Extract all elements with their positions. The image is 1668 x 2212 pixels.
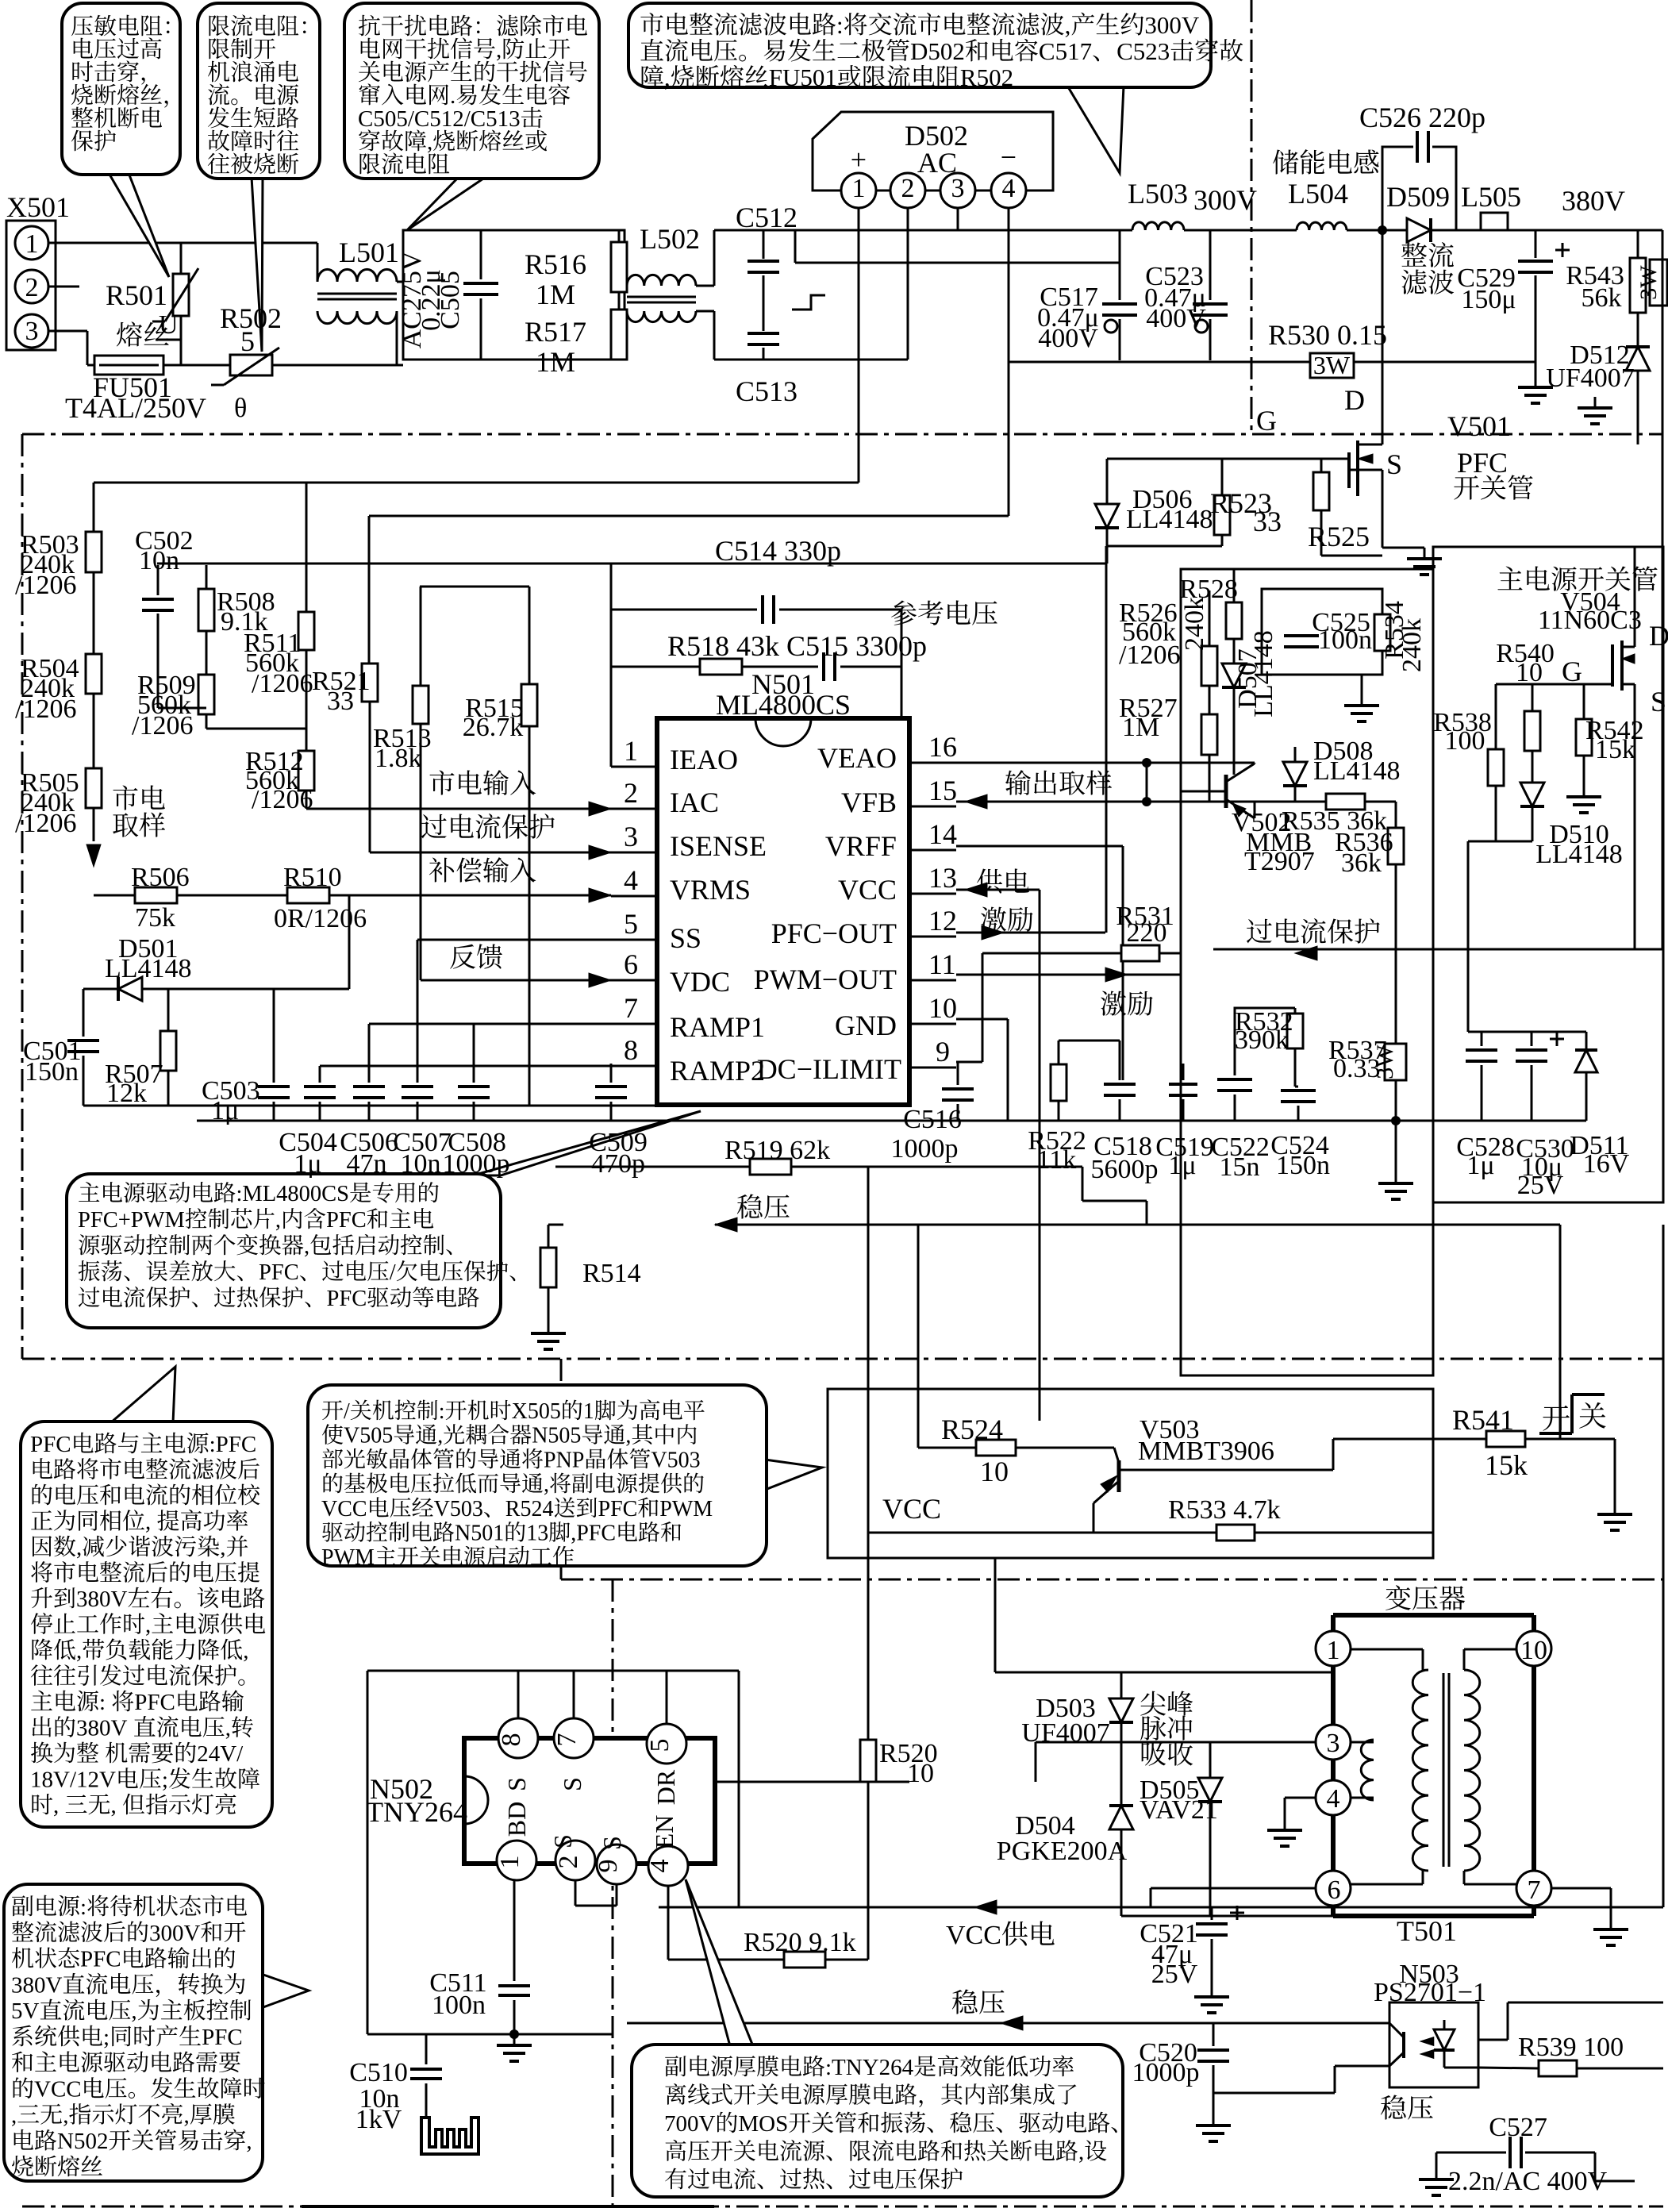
svg-text:9: 9 <box>594 1860 623 1873</box>
svg-text:ISENSE: ISENSE <box>670 830 767 862</box>
svg-text:PFC: PFC <box>259 1260 299 1285</box>
svg-text:R539 100: R539 100 <box>1518 2033 1624 2062</box>
svg-text:RAMP2: RAMP2 <box>670 1055 765 1087</box>
svg-text:1: 1 <box>495 1856 525 1869</box>
svg-text:,: , <box>496 37 502 63</box>
svg-text:1M: 1M <box>536 346 575 378</box>
svg-text:,: , <box>243 1638 248 1664</box>
svg-text:10: 10 <box>1520 1636 1547 1665</box>
svg-text:C516: C516 <box>903 1105 962 1134</box>
svg-text:1kV: 1kV <box>356 2105 402 2134</box>
svg-text:1000p: 1000p <box>1132 2058 1200 2087</box>
svg-text:15k: 15k <box>1485 1449 1528 1481</box>
svg-text::ML4800CS: :ML4800CS <box>236 1182 350 1206</box>
svg-text:390k: 390k <box>1235 1025 1289 1055</box>
svg-text:C517: C517 <box>1039 37 1092 65</box>
svg-text:C514 330p: C514 330p <box>715 535 841 567</box>
svg-text:5600p: 5600p <box>1091 1155 1159 1184</box>
svg-text:/1206: /1206 <box>1119 641 1180 670</box>
svg-text:U: U <box>159 310 179 340</box>
svg-text:1μ: 1μ <box>1168 1151 1196 1180</box>
svg-text:IEAO: IEAO <box>670 744 738 775</box>
svg-text:R502: R502 <box>960 63 1013 91</box>
svg-text:C523: C523 <box>1116 37 1170 65</box>
svg-text:MOS: MOS <box>738 2111 788 2137</box>
svg-text:150n: 150n <box>25 1057 79 1087</box>
svg-text:VFB: VFB <box>841 787 897 818</box>
svg-text:1M: 1M <box>536 279 575 310</box>
svg-text:13: 13 <box>526 1521 548 1546</box>
svg-text:,: , <box>53 1793 59 1818</box>
svg-text::: : <box>836 11 844 39</box>
svg-text:16V: 16V <box>1583 1149 1630 1179</box>
svg-text:1μ: 1μ <box>294 1149 321 1179</box>
svg-text:3W: 3W <box>1635 265 1662 300</box>
svg-text:PWM−OUT: PWM−OUT <box>754 964 897 995</box>
svg-text:.: . <box>450 83 455 109</box>
svg-text:R520 9.1k: R520 9.1k <box>744 1928 856 1957</box>
svg-text:150μ: 150μ <box>1461 285 1516 314</box>
svg-text:C512: C512 <box>736 202 797 233</box>
svg-text:G: G <box>1256 405 1277 437</box>
svg-text:9: 9 <box>936 1036 950 1068</box>
svg-text:/: / <box>344 1399 350 1424</box>
svg-text:400V: 400V <box>1038 324 1098 353</box>
svg-text:10: 10 <box>980 1456 1009 1487</box>
svg-text:VCC: VCC <box>946 1921 1001 1950</box>
svg-text:PS2701−1: PS2701−1 <box>1374 1978 1486 2007</box>
svg-text:R530 0.15: R530 0.15 <box>1268 319 1387 351</box>
svg-text:LL4148: LL4148 <box>1313 756 1401 786</box>
svg-text:33: 33 <box>1253 506 1282 537</box>
svg-text:2: 2 <box>901 174 915 203</box>
svg-text:2: 2 <box>554 1856 583 1869</box>
svg-text:G: G <box>1562 656 1582 687</box>
svg-text:/1206: /1206 <box>15 571 76 600</box>
svg-text:,: , <box>1078 2140 1084 2165</box>
svg-text:FU501: FU501 <box>769 63 837 91</box>
svg-text:R524: R524 <box>505 1497 554 1521</box>
svg-text::TNY264: :TNY264 <box>825 2055 914 2080</box>
svg-text:18V/12V: 18V/12V <box>30 1768 116 1793</box>
svg-text:240k: 240k <box>1180 597 1209 651</box>
svg-text:,: , <box>246 2129 252 2154</box>
svg-text:PNP: PNP <box>544 1448 584 1472</box>
svg-text:SS: SS <box>670 922 701 954</box>
svg-text:VCC: VCC <box>34 2077 82 2102</box>
svg-text:300V: 300V <box>149 1921 201 1946</box>
svg-text:R533 4.7k: R533 4.7k <box>1168 1495 1281 1525</box>
svg-text:16: 16 <box>928 731 957 763</box>
svg-text:380V: 380V <box>76 1587 128 1612</box>
svg-text:UF4007: UF4007 <box>1546 364 1634 393</box>
svg-text:D: D <box>1344 384 1365 416</box>
svg-text:11k: 11k <box>1037 1145 1077 1175</box>
svg-text:6: 6 <box>624 948 638 980</box>
svg-text:T2907: T2907 <box>1244 847 1315 876</box>
svg-text:−: − <box>1001 141 1017 173</box>
svg-text:300V: 300V <box>1144 11 1200 39</box>
svg-text:2: 2 <box>624 777 638 809</box>
svg-text:,: , <box>225 1716 231 1741</box>
svg-text:36k: 36k <box>1341 848 1382 878</box>
svg-text:R519 62k: R519 62k <box>724 1136 830 1165</box>
svg-text:,: , <box>427 129 432 155</box>
svg-text:PFC: PFC <box>1457 447 1508 479</box>
svg-text:5: 5 <box>645 1739 675 1752</box>
svg-text:3: 3 <box>624 821 638 852</box>
svg-text:1: 1 <box>852 174 866 203</box>
svg-text:8: 8 <box>497 1733 526 1747</box>
svg-text:/1206: /1206 <box>252 669 313 698</box>
svg-text:4: 4 <box>1002 174 1016 203</box>
svg-text:R501: R501 <box>106 279 167 311</box>
svg-text:TNY264: TNY264 <box>366 1796 467 1828</box>
svg-text:R541: R541 <box>1452 1404 1514 1436</box>
svg-text:1: 1 <box>583 1399 594 1424</box>
svg-text:7: 7 <box>552 1733 582 1747</box>
svg-text:R525: R525 <box>1308 521 1370 552</box>
svg-text:/1206: /1206 <box>15 809 76 838</box>
svg-text:S: S <box>1651 686 1666 717</box>
svg-text:UF4007: UF4007 <box>1021 1718 1109 1748</box>
svg-text:,: , <box>111 1793 117 1818</box>
svg-text:VDC: VDC <box>670 966 730 998</box>
svg-text:100n: 100n <box>432 1991 486 2020</box>
svg-text:2: 2 <box>25 273 39 302</box>
svg-text:,: , <box>63 2102 68 2128</box>
svg-text:T501: T501 <box>1397 1915 1457 1947</box>
svg-text:25V: 25V <box>1151 1960 1198 1989</box>
svg-text:L505: L505 <box>1461 181 1521 213</box>
svg-text:C505: C505 <box>436 271 465 329</box>
svg-text:S: S <box>502 1777 531 1791</box>
svg-text:S: S <box>548 1834 577 1848</box>
svg-text:PWM: PWM <box>321 1545 375 1570</box>
svg-text:11N60C3: 11N60C3 <box>1538 606 1642 635</box>
svg-text:1: 1 <box>25 229 39 259</box>
svg-text:PFC: PFC <box>327 1287 367 1311</box>
svg-text:R516: R516 <box>525 248 586 280</box>
svg-text:,: , <box>437 1424 443 1448</box>
svg-text:VCC: VCC <box>321 1497 367 1521</box>
svg-text:,: , <box>220 1535 225 1560</box>
svg-text:DR: DR <box>651 1769 680 1805</box>
svg-text:LL4148: LL4148 <box>1249 630 1278 717</box>
svg-text:PFC+PWM: PFC+PWM <box>78 1208 185 1233</box>
svg-text:+: + <box>851 144 867 175</box>
svg-text:PWM: PWM <box>659 1497 713 1521</box>
svg-text:1M: 1M <box>1122 713 1159 742</box>
svg-text:4: 4 <box>624 864 638 896</box>
svg-text:4: 4 <box>645 1860 675 1873</box>
svg-text:;: ; <box>103 2025 110 2050</box>
svg-text:VAV21: VAV21 <box>1140 1795 1218 1825</box>
svg-text:4: 4 <box>1327 1784 1340 1814</box>
svg-text:12: 12 <box>928 905 957 937</box>
svg-text:10: 10 <box>907 1759 934 1788</box>
svg-text:C527: C527 <box>1489 2113 1547 2142</box>
svg-text:15n: 15n <box>1220 1152 1260 1182</box>
svg-text:GND: GND <box>835 1010 897 1041</box>
svg-text:8: 8 <box>624 1034 638 1066</box>
svg-text:T4AL/250V: T4AL/250V <box>65 392 206 424</box>
svg-text:,PFC: ,PFC <box>571 1521 616 1546</box>
svg-text:S: S <box>558 1777 586 1791</box>
svg-text:RAMP1: RAMP1 <box>670 1011 765 1043</box>
svg-text:33: 33 <box>327 687 354 716</box>
svg-text:10: 10 <box>928 992 957 1024</box>
svg-text:VCC: VCC <box>882 1493 941 1525</box>
svg-text:100n: 100n <box>1318 625 1372 655</box>
svg-text:R524: R524 <box>941 1414 1003 1445</box>
svg-text:380V: 380V <box>1562 185 1625 217</box>
svg-text:N501: N501 <box>455 1521 504 1546</box>
svg-text:,: , <box>11 2102 17 2128</box>
svg-text:5: 5 <box>240 325 255 357</box>
svg-text:C510: C510 <box>349 2058 408 2087</box>
svg-text:θ: θ <box>234 394 247 423</box>
svg-text:D: D <box>1649 620 1668 652</box>
svg-text:X501: X501 <box>6 191 70 223</box>
svg-text:N505: N505 <box>532 1424 581 1448</box>
svg-text:1μ: 1μ <box>1466 1151 1494 1180</box>
svg-text:V505: V505 <box>344 1424 393 1448</box>
svg-text:S: S <box>598 1836 626 1850</box>
svg-text::: : <box>80 1895 86 1920</box>
svg-text:L503: L503 <box>1128 178 1188 210</box>
svg-text:PFC: PFC <box>326 1208 367 1233</box>
svg-text:R510: R510 <box>283 863 342 892</box>
svg-text:10: 10 <box>1516 658 1543 687</box>
svg-text:L504: L504 <box>1288 178 1348 210</box>
svg-text:380V: 380V <box>11 1972 63 1998</box>
svg-text:,: , <box>76 1638 82 1664</box>
svg-text:,: , <box>544 1472 549 1497</box>
svg-text:LL4148: LL4148 <box>1126 505 1213 534</box>
svg-text:26.7k: 26.7k <box>463 713 524 742</box>
svg-text:D509: D509 <box>1386 181 1450 213</box>
svg-text:C513: C513 <box>736 375 797 407</box>
svg-text:VCC: VCC <box>838 874 897 906</box>
svg-text:7: 7 <box>624 992 638 1024</box>
svg-text:PFC: PFC <box>30 1432 71 1457</box>
svg-text:R514: R514 <box>582 1259 641 1288</box>
svg-text:BD: BD <box>502 1802 531 1837</box>
svg-text:,: , <box>625 1424 631 1448</box>
svg-text:700V: 700V <box>664 2111 716 2137</box>
svg-text:,: , <box>664 63 671 91</box>
svg-text:47n: 47n <box>347 1149 387 1179</box>
svg-text:C526 220p: C526 220p <box>1359 102 1485 133</box>
svg-text:,: , <box>275 1208 281 1233</box>
svg-text:IAC: IAC <box>670 787 719 818</box>
svg-text:2.2n/AC 400V: 2.2n/AC 400V <box>1448 2167 1608 2196</box>
svg-text:/1206: /1206 <box>132 711 193 741</box>
svg-text:240k: 240k <box>1397 618 1427 672</box>
svg-text::: : <box>439 1399 445 1424</box>
svg-text:VRFF: VRFF <box>825 830 897 862</box>
svg-text:PFC: PFC <box>598 1497 638 1521</box>
svg-text:5: 5 <box>624 908 638 940</box>
svg-text:ML4800CS: ML4800CS <box>716 689 851 721</box>
svg-text:3: 3 <box>25 317 39 346</box>
svg-text:24V/: 24V/ <box>197 1741 244 1767</box>
svg-text:PFC−OUT: PFC−OUT <box>771 917 897 949</box>
svg-text:N502: N502 <box>57 2129 108 2154</box>
svg-text:L501: L501 <box>339 237 399 268</box>
svg-text:3: 3 <box>951 174 965 203</box>
svg-text:14: 14 <box>928 818 957 850</box>
svg-text:15: 15 <box>928 775 957 806</box>
svg-text:EN: EN <box>650 1815 678 1849</box>
svg-text:25V: 25V <box>1517 1171 1564 1200</box>
svg-text:,: , <box>76 1535 82 1560</box>
svg-text:S: S <box>1386 448 1402 480</box>
svg-text:11: 11 <box>928 948 956 980</box>
svg-text:6: 6 <box>1328 1875 1341 1905</box>
svg-text:LL4148: LL4148 <box>105 954 192 983</box>
svg-text:PGKE200A: PGKE200A <box>997 1837 1128 1866</box>
svg-text:380V: 380V <box>76 1716 128 1741</box>
svg-text:1000p: 1000p <box>891 1134 959 1164</box>
svg-text:470p: 470p <box>591 1149 645 1179</box>
svg-text:R506: R506 <box>131 863 190 892</box>
svg-text:PFC: PFC <box>202 2025 243 2050</box>
svg-text:3W: 3W <box>1313 351 1351 379</box>
svg-text:C505/C512/C513: C505/C512/C513 <box>358 106 521 132</box>
svg-text:X505: X505 <box>512 1399 561 1424</box>
svg-text:1.8k: 1.8k <box>375 744 422 773</box>
svg-text:,: , <box>131 1998 136 2024</box>
svg-text:,: , <box>145 1613 151 1638</box>
svg-text:DC−ILIMIT: DC−ILIMIT <box>757 1053 901 1085</box>
svg-text::: : <box>99 1690 106 1715</box>
svg-text:/1206: /1206 <box>15 694 76 724</box>
svg-text:100: 100 <box>1445 726 1485 756</box>
svg-text:,: , <box>304 1234 309 1259</box>
svg-text:1000p: 1000p <box>443 1149 510 1179</box>
svg-text:;: ; <box>162 1768 168 1793</box>
svg-text:56k: 56k <box>1582 283 1622 313</box>
svg-text:220: 220 <box>1127 918 1167 948</box>
svg-text:15k: 15k <box>1595 735 1635 764</box>
svg-text:LL4148: LL4148 <box>1535 840 1623 869</box>
svg-text:10n: 10n <box>401 1149 441 1179</box>
svg-text:V501: V501 <box>1447 410 1511 442</box>
svg-text:D502: D502 <box>910 37 965 65</box>
svg-text::PFC: :PFC <box>209 1432 257 1457</box>
svg-text:400V: 400V <box>1146 304 1206 333</box>
svg-text:1: 1 <box>624 735 638 767</box>
svg-text:13: 13 <box>928 862 957 894</box>
svg-text:1: 1 <box>1327 1636 1340 1665</box>
svg-text:/1206: /1206 <box>252 785 313 814</box>
svg-text:150n: 150n <box>1276 1151 1330 1180</box>
svg-text:VRMS: VRMS <box>670 874 751 906</box>
svg-text:,: , <box>184 2102 190 2128</box>
svg-text:7: 7 <box>1528 1875 1541 1905</box>
svg-text:10n: 10n <box>139 546 179 575</box>
svg-text:1μ: 1μ <box>211 1096 239 1125</box>
svg-text:VEAO: VEAO <box>817 742 897 774</box>
svg-text:5V: 5V <box>11 1998 40 2024</box>
svg-text:L502: L502 <box>640 223 700 255</box>
svg-text:3W: 3W <box>1372 1044 1398 1079</box>
svg-text:,: , <box>1065 11 1071 39</box>
svg-text:PFC: PFC <box>134 1690 175 1715</box>
svg-text:R518 43k C515 3300p: R518 43k C515 3300p <box>667 630 927 662</box>
svg-text:0R/1206: 0R/1206 <box>274 904 367 933</box>
svg-text:3: 3 <box>1327 1729 1340 1758</box>
svg-text:75k: 75k <box>135 903 175 933</box>
svg-text:12k: 12k <box>106 1079 147 1108</box>
svg-text:MMBT3906: MMBT3906 <box>1138 1437 1274 1466</box>
svg-text:V503: V503 <box>434 1497 483 1521</box>
svg-text:PFC: PFC <box>80 1947 121 1972</box>
svg-text:300V: 300V <box>1193 184 1257 216</box>
svg-text:R517: R517 <box>525 316 586 348</box>
svg-text:/: / <box>390 1260 396 1285</box>
svg-text:V503: V503 <box>651 1448 700 1472</box>
svg-text:,: , <box>145 1510 151 1535</box>
